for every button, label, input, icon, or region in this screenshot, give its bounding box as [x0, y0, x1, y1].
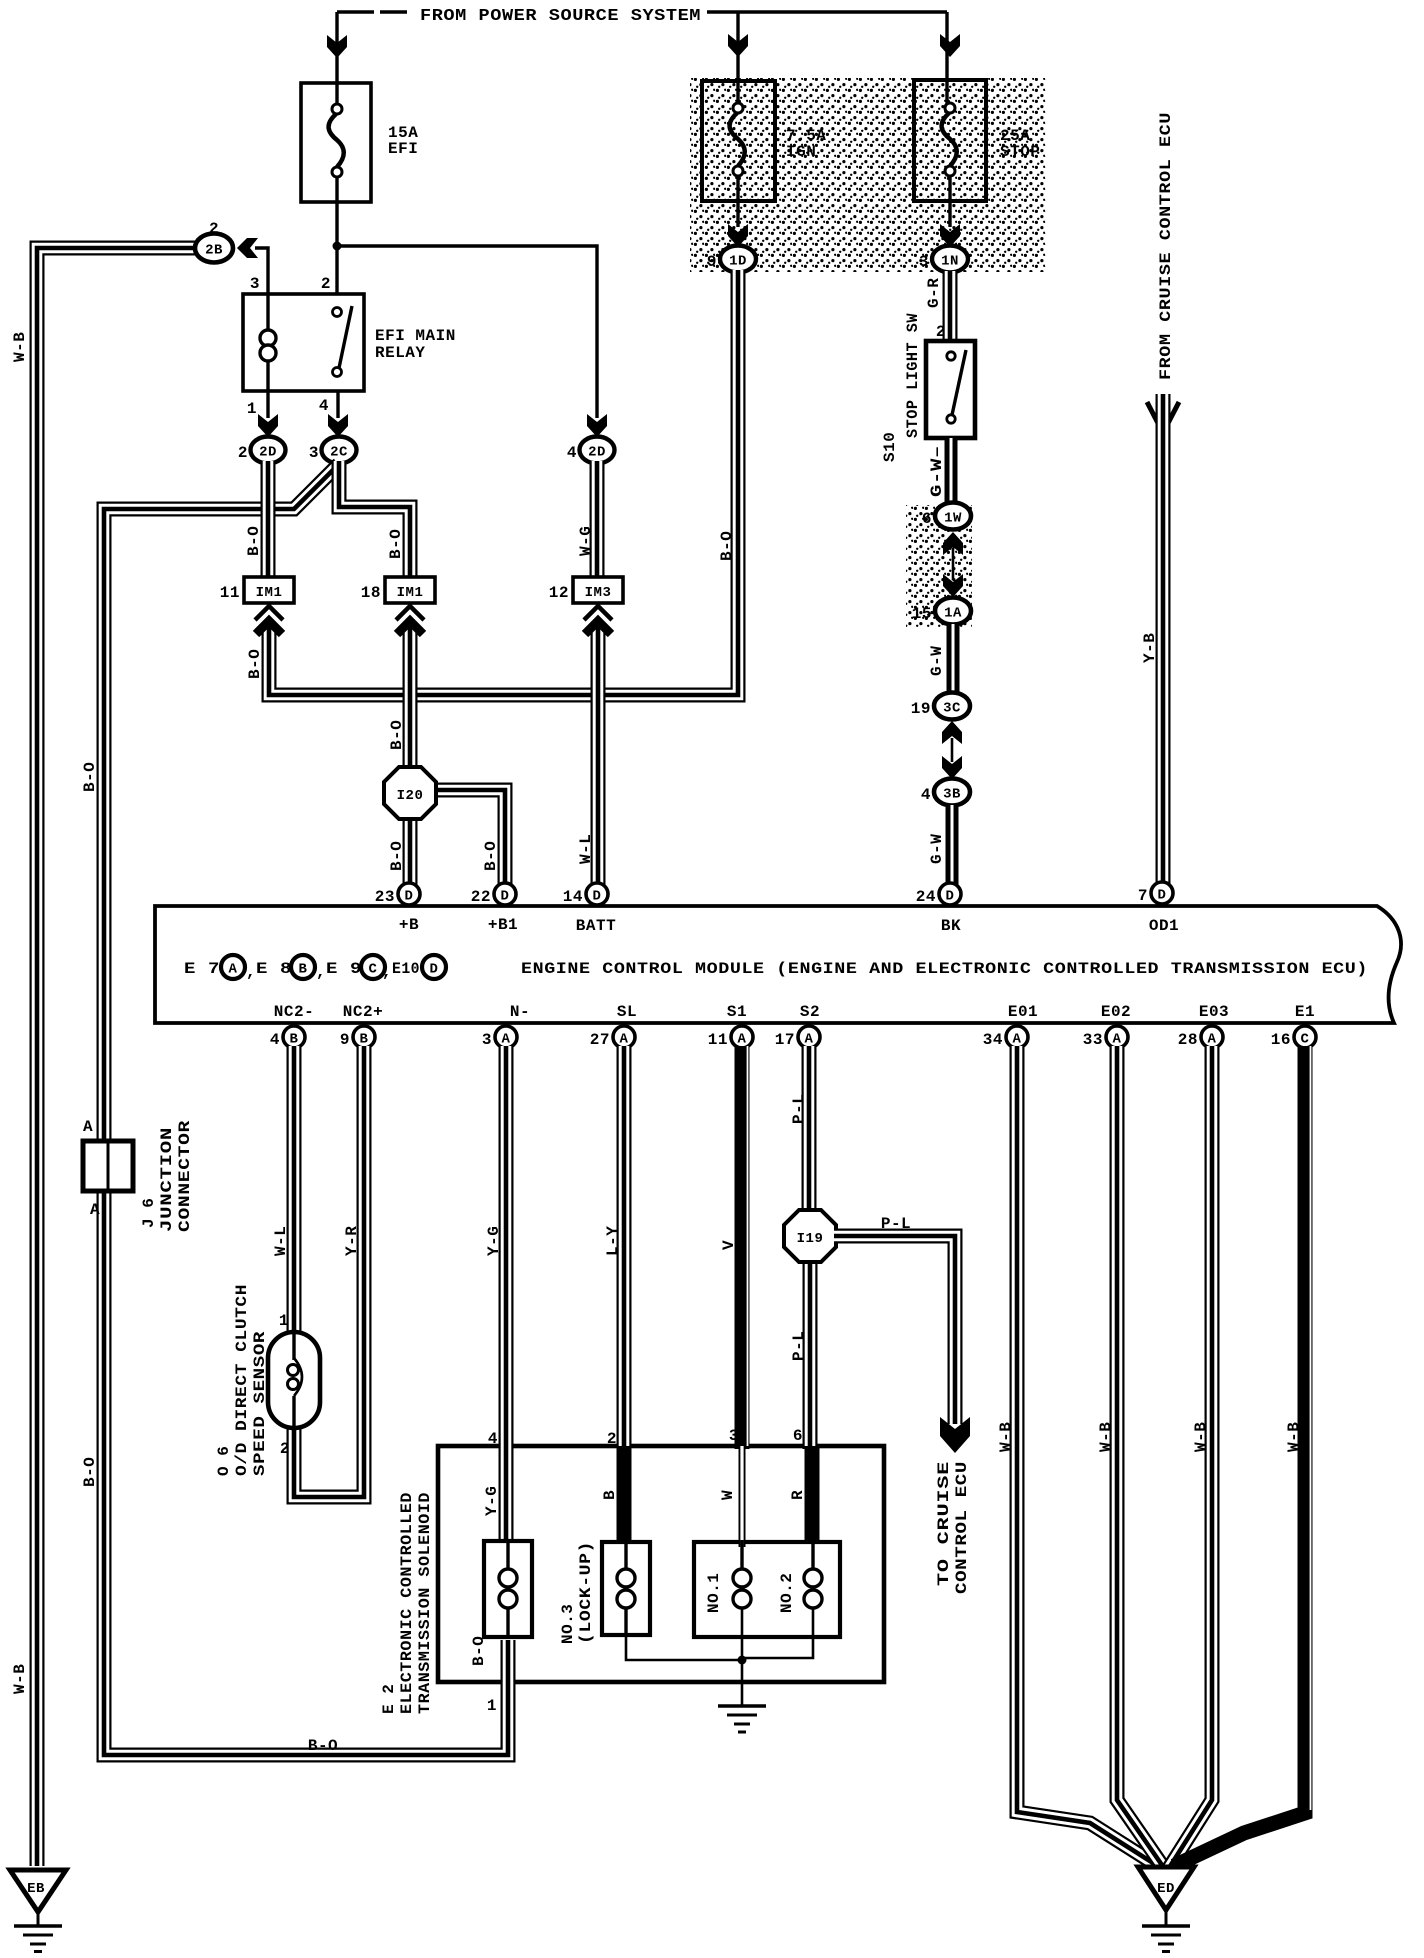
svg-text:SL: SL: [617, 1003, 637, 1021]
wire relay pin 1 to 2(2D): [266, 391, 269, 418]
wire W thin inside E2 to NO.1: [739, 1446, 746, 1547]
connector 11(A): [708, 1026, 753, 1049]
wire V thick 11(A) to E2 pin 3: [742, 1046, 748, 1449]
connector code circle A: [221, 955, 245, 979]
svg-text:B: B: [601, 1490, 619, 1500]
svg-text:2D: 2D: [588, 445, 606, 461]
wire G-W 3B to 24(D): [946, 805, 959, 886]
chevron arrows below IM3 12: [584, 606, 612, 634]
connector 7(D): [1138, 882, 1173, 905]
arrow into 3(2C): [328, 414, 348, 437]
svg-text:ENGINE CONTROL MODULE (ENGINE: ENGINE CONTROL MODULE (ENGINE AND ELECTR…: [521, 960, 1368, 978]
svg-text:B: B: [360, 1032, 369, 1048]
svg-text:D: D: [1158, 888, 1167, 904]
connector 14(D): [563, 883, 608, 906]
wire W-B from 2B to EB ground: [37, 248, 198, 1866]
svg-text:24: 24: [916, 888, 936, 906]
wire thin between 1W and 1A: [952, 548, 955, 580]
svg-text:J 6: J 6: [140, 1198, 158, 1228]
svg-text:2: 2: [238, 444, 248, 462]
svg-text:+B1: +B1: [488, 916, 518, 934]
svg-text:FROM CRUISE CONTROL ECU: FROM CRUISE CONTROL ECU: [1157, 112, 1175, 380]
arrow into 2(2D): [258, 414, 278, 437]
svg-text:TO CRUISE: TO CRUISE: [935, 1461, 953, 1586]
svg-text:B-O: B-O: [308, 1737, 338, 1755]
wire 2D to IM1 11: [261, 461, 276, 580]
svg-text:A: A: [738, 1032, 747, 1048]
svg-text:EFI MAIN: EFI MAIN: [375, 327, 456, 345]
svg-text:3: 3: [919, 253, 929, 271]
svg-text:D: D: [501, 889, 510, 905]
wire G-W 1A to 3C: [947, 624, 960, 694]
svg-text:W-G: W-G: [577, 526, 595, 556]
svg-text:W-B: W-B: [11, 1664, 29, 1694]
wire junction to ground: [741, 1660, 744, 1706]
halftone region around IGN and STOP fuses: [690, 78, 1046, 272]
svg-text:W-B: W-B: [1192, 1422, 1210, 1452]
svg-text:W-L: W-L: [577, 834, 595, 864]
svg-text:B-O: B-O: [81, 1457, 99, 1487]
svg-text:18: 18: [361, 584, 381, 602]
svg-text:G-W–: G-W–: [928, 445, 946, 497]
svg-text:B-O: B-O: [470, 1636, 488, 1666]
svg-text:N-: N-: [510, 1003, 530, 1021]
svg-text:D: D: [405, 889, 414, 905]
svg-text:9: 9: [340, 1031, 350, 1049]
svg-text:IM1: IM1: [397, 585, 424, 601]
svg-text:1: 1: [247, 400, 257, 418]
junction connector I19 octagon: [784, 1210, 836, 1262]
svg-text:ED: ED: [1157, 1881, 1175, 1897]
wire P-L 17(A) to I19: [802, 1046, 817, 1214]
svg-text:Y-R: Y-R: [343, 1226, 361, 1256]
connector 19(3C): [911, 693, 970, 720]
label 15A EFI: [388, 124, 418, 158]
wire EFI fuse to relay pin 2: [335, 177, 338, 296]
svg-text:A: A: [620, 1032, 629, 1048]
wire Y-R sensor pin 2 loop to 9(B): [294, 1046, 364, 1497]
wire NO.3 to ground junction: [626, 1635, 740, 1660]
wire branch to 4(2D): [337, 246, 597, 418]
svg-text:D: D: [593, 889, 602, 905]
svg-text:BATT: BATT: [576, 917, 616, 935]
wire L-Y 27(A) to E2 box: [617, 1046, 632, 1449]
svg-text:O/D DIRECT CLUTCH: O/D DIRECT CLUTCH: [233, 1284, 251, 1476]
relay EFI MAIN RELAY: [243, 294, 364, 391]
arrow barbs from cruise ECU: [1147, 402, 1179, 429]
wire drop to IGN fuse: [736, 12, 739, 104]
fuse 25A STOP: [914, 80, 986, 201]
connector 3(2C): [309, 437, 357, 464]
svg-text:4: 4: [921, 786, 931, 804]
connector 4(3B): [921, 779, 970, 806]
svg-text:W-B: W-B: [1285, 1422, 1303, 1452]
svg-text:EFI: EFI: [388, 140, 418, 158]
wire 4(2D) to IM3 12 W-G: [590, 461, 605, 580]
svg-text:34: 34: [983, 1031, 1003, 1049]
svg-text:OD1: OD1: [1149, 917, 1179, 935]
connector 28(A): [1178, 1026, 1223, 1049]
junction connector IM1 pin 18: [361, 577, 435, 603]
connector code circle B: [291, 955, 315, 979]
arrow into 4(2D): [587, 414, 607, 437]
svg-text:G-R: G-R: [925, 278, 943, 308]
svg-text:IM1: IM1: [256, 585, 283, 601]
svg-text:E02: E02: [1101, 1003, 1131, 1021]
svg-text:A: A: [83, 1118, 93, 1136]
svg-text:IGN: IGN: [786, 143, 816, 161]
svg-text:,: ,: [246, 963, 256, 981]
svg-text:L-Y: L-Y: [604, 1226, 622, 1256]
svg-text:2D: 2D: [259, 445, 277, 461]
wire IM3 12 to 14(D) W-L: [591, 624, 606, 886]
svg-text:9: 9: [707, 253, 717, 271]
svg-text:1: 1: [279, 1312, 289, 1330]
wire Y-G 3(A) to solenoid 1: [499, 1046, 514, 1545]
connector 17(A): [775, 1026, 820, 1049]
svg-text:RELAY: RELAY: [375, 344, 426, 362]
solenoid NO.3 lock-up body: [602, 1540, 650, 1635]
connector 22(D): [471, 883, 516, 906]
svg-text:,: ,: [382, 963, 392, 981]
solenoid box NO.1 NO.2: [694, 1542, 840, 1637]
connector 4(2D): [567, 437, 615, 464]
svg-text:2: 2: [936, 323, 946, 341]
svg-text:33: 33: [1083, 1031, 1103, 1049]
wire drop to EFI fuse: [335, 12, 338, 104]
chevron arrows below IM1 11: [255, 606, 283, 634]
svg-text:11: 11: [220, 584, 240, 602]
svg-text:P-L: P-L: [790, 1331, 808, 1361]
arrow into IGN fuse: [728, 34, 748, 57]
label 7.5A IGN: [786, 127, 826, 161]
svg-text:STOP LIGHT SW: STOP LIGHT SW: [904, 313, 922, 438]
svg-text:4: 4: [488, 1430, 498, 1448]
wire R thick inside E2 to NO.2: [805, 1446, 820, 1544]
svg-text:IM3: IM3: [585, 585, 612, 601]
arrow into 2B: [237, 238, 258, 258]
junction dot below NO.1: [738, 1656, 747, 1665]
wire 2C to IM1 18: [339, 461, 410, 580]
svg-text:28: 28: [1178, 1031, 1198, 1049]
svg-text:D: D: [430, 962, 439, 978]
fuse 15A EFI: [301, 83, 371, 202]
svg-text:P-L: P-L: [790, 1094, 808, 1124]
svg-text:A: A: [90, 1201, 100, 1219]
connector 33(A): [1083, 1026, 1128, 1049]
svg-text:B-O: B-O: [388, 720, 406, 750]
svg-text:,: ,: [316, 963, 326, 981]
wire E02 W-B to ED ground: [1117, 1046, 1164, 1868]
svg-text:FROM POWER SOURCE SYSTEM: FROM POWER SOURCE SYSTEM: [420, 7, 701, 26]
solenoid box E2 electronic controlled transmission solenoid: [438, 1446, 884, 1682]
svg-text:3: 3: [309, 444, 319, 462]
svg-text:16: 16: [1271, 1031, 1291, 1049]
svg-text:1D: 1D: [729, 254, 747, 270]
svg-text:17: 17: [775, 1031, 795, 1049]
svg-text:STOP: STOP: [1000, 143, 1040, 161]
connector 34(A): [983, 1026, 1028, 1049]
wire drop into STOP fuse: [945, 12, 948, 104]
label 25A STOP: [1000, 127, 1040, 161]
connector 16(C): [1271, 1026, 1316, 1049]
svg-text:SPEED SENSOR: SPEED SENSOR: [251, 1331, 269, 1476]
arrow into 9(1D): [728, 224, 748, 247]
sensor O6 O/D direct clutch speed sensor: [268, 1332, 320, 1428]
label EFI MAIN RELAY: [375, 327, 456, 362]
svg-text:JUNCTION: JUNCTION: [158, 1127, 176, 1232]
arrow down into 3B: [942, 756, 962, 779]
svg-text:NC2-: NC2-: [274, 1003, 314, 1021]
node junction below EFI fuse: [333, 242, 342, 251]
connector 15(1A): [912, 598, 971, 625]
svg-text:C: C: [369, 962, 378, 978]
svg-text:W-B: W-B: [997, 1422, 1015, 1452]
arrow into 3(1N): [940, 224, 960, 247]
svg-text:(LOCK-UP): (LOCK-UP): [577, 1541, 595, 1644]
ground ED: [1138, 1867, 1194, 1952]
svg-text:O 6: O 6: [215, 1446, 233, 1476]
svg-text:W-B: W-B: [1097, 1422, 1115, 1452]
svg-text:E 8: E 8: [256, 960, 292, 978]
chevron arrows below IM1 18: [396, 606, 424, 634]
svg-text:3: 3: [729, 1427, 739, 1445]
ECU engine control module box: [155, 906, 1401, 1023]
wire G-W switch to 6(1W): [945, 438, 958, 505]
arrow into STOP fuse: [940, 34, 960, 57]
svg-text:1A: 1A: [944, 606, 962, 622]
svg-text:S10: S10: [881, 432, 899, 462]
svg-text:14: 14: [563, 888, 583, 906]
solenoid NO.1 coil: [733, 1540, 751, 1660]
svg-text:11: 11: [708, 1031, 728, 1049]
wire I20 to 23(D): [403, 816, 418, 886]
svg-text:D: D: [946, 889, 955, 905]
svg-text:S2: S2: [800, 1003, 820, 1021]
svg-text:3C: 3C: [943, 701, 961, 717]
svg-text:E 2: E 2: [380, 1684, 398, 1714]
wire E01 W-B to ED ground: [1017, 1046, 1161, 1868]
svg-text:12: 12: [549, 584, 569, 602]
connector 4(B): [270, 1026, 305, 1049]
wire E1 W-B thick to ED ground: [1174, 1046, 1311, 1866]
wire B-O loop from IM1 11 to 9(1D): [269, 270, 738, 695]
svg-text:G-W: G-W: [928, 834, 946, 864]
wire Y-B to 7(D): [1156, 394, 1171, 886]
ground EB: [10, 1870, 66, 1952]
svg-text:B: B: [299, 962, 308, 978]
wire G-R from 3(1N) to stop light switch: [943, 271, 958, 345]
svg-text:CONNECTOR: CONNECTOR: [176, 1120, 194, 1232]
wire STOP fuse to 3(1N): [948, 176, 951, 227]
svg-text:1: 1: [487, 1697, 497, 1715]
svg-text:P-L: P-L: [881, 1215, 911, 1233]
junction connector J6: [83, 1141, 133, 1191]
svg-text:2C: 2C: [330, 445, 348, 461]
connector 6(1W): [922, 503, 971, 530]
arrow up into 3C: [942, 721, 962, 744]
wire relay pin 4 to 3(2C): [336, 391, 339, 418]
svg-text:Y-G: Y-G: [485, 1226, 503, 1256]
svg-text:NO.3: NO.3: [559, 1604, 577, 1644]
wire W-L 4(B) to speed sensor pin 1: [287, 1046, 302, 1336]
connector 3(A): [482, 1026, 517, 1049]
svg-text:1N: 1N: [941, 254, 959, 270]
svg-text:+B: +B: [399, 916, 419, 934]
svg-text:A: A: [502, 1032, 511, 1048]
svg-text:I19: I19: [797, 1231, 824, 1247]
connector 24(D): [916, 883, 961, 906]
svg-text:27: 27: [590, 1031, 610, 1049]
svg-text:E 9: E 9: [326, 960, 362, 978]
svg-text:W-B: W-B: [11, 332, 29, 362]
svg-text:2: 2: [321, 275, 331, 293]
svg-text:6: 6: [793, 1427, 803, 1445]
svg-text:22: 22: [471, 888, 491, 906]
arrow into EFI fuse: [327, 35, 347, 58]
svg-text:A: A: [1208, 1032, 1217, 1048]
svg-text:NC2+: NC2+: [343, 1003, 383, 1021]
svg-text:23: 23: [375, 888, 395, 906]
wire B-O long loop from 2C to E2 solenoid pin 1: [104, 464, 508, 1755]
connector 2(2B): [195, 220, 233, 263]
svg-text:1W: 1W: [944, 511, 962, 527]
svg-text:6: 6: [922, 510, 932, 528]
svg-text:B-O: B-O: [245, 526, 263, 556]
svg-text:3: 3: [482, 1031, 492, 1049]
wire thin between 3C and 3B: [951, 738, 954, 762]
junction connector IM1 pin 11: [220, 577, 294, 603]
svg-text:4: 4: [319, 397, 329, 415]
svg-text:Y-B: Y-B: [1141, 633, 1159, 663]
svg-text:E01: E01: [1008, 1003, 1038, 1021]
svg-text:A: A: [229, 962, 238, 978]
svg-text:S1: S1: [727, 1003, 747, 1021]
svg-text:CONTROL ECU: CONTROL ECU: [953, 1461, 971, 1594]
svg-text:Y-G: Y-G: [483, 1486, 501, 1516]
connector 27(A): [590, 1026, 635, 1049]
svg-text:A: A: [1113, 1032, 1122, 1048]
fuse 7.5A IGN: [702, 81, 775, 201]
svg-text:W-L: W-L: [272, 1226, 290, 1256]
svg-text:B-O: B-O: [718, 531, 736, 561]
svg-text:19: 19: [911, 700, 931, 718]
halftone region around connectors 1W and 1A: [906, 505, 972, 627]
arrow up into 1W: [943, 532, 963, 555]
svg-text:B-O: B-O: [81, 762, 99, 792]
arrow to cruise control ECU: [940, 1417, 970, 1453]
wire IM1 18 to I20: [403, 624, 418, 770]
svg-text:E10: E10: [392, 960, 420, 978]
junction connector I20 octagon: [384, 767, 436, 819]
connector code circle C: [361, 955, 385, 979]
svg-text:A: A: [805, 1032, 814, 1048]
svg-text:B-O: B-O: [482, 841, 500, 871]
svg-text:BK: BK: [941, 917, 961, 935]
svg-text:B-O: B-O: [246, 649, 264, 679]
arrow down into 1A: [943, 574, 963, 597]
svg-text:A: A: [1013, 1032, 1022, 1048]
connector 3(1N): [919, 246, 968, 273]
solenoid 1 body: [484, 1541, 532, 1637]
svg-text:7: 7: [1138, 887, 1148, 905]
svg-text:3B: 3B: [943, 787, 961, 803]
solenoid NO.2 coil: [742, 1540, 822, 1658]
svg-text:3: 3: [250, 275, 260, 293]
svg-text:4: 4: [567, 444, 577, 462]
svg-text:2: 2: [280, 1440, 290, 1458]
svg-text:TRANSMISSION SOLENOID: TRANSMISSION SOLENOID: [416, 1492, 434, 1714]
svg-text:E 7: E 7: [184, 960, 220, 978]
svg-text:G-W: G-W: [928, 646, 946, 676]
svg-text:NO.2: NO.2: [778, 1573, 796, 1613]
svg-text:2: 2: [607, 1430, 617, 1448]
connector 9(1D): [707, 246, 756, 273]
svg-text:B-O: B-O: [388, 841, 406, 871]
svg-text:4: 4: [270, 1031, 280, 1049]
svg-text:E1: E1: [1295, 1003, 1315, 1021]
ground below solenoids: [718, 1706, 766, 1732]
wire P-L I19 to cruise control ECU: [834, 1236, 955, 1424]
svg-text:R: R: [789, 1490, 807, 1500]
wire power source left lead: [337, 10, 407, 13]
svg-text:I20: I20: [397, 788, 424, 804]
svg-text:V: V: [720, 1240, 738, 1250]
svg-text:15: 15: [912, 605, 932, 623]
connector 23(D): [375, 883, 420, 906]
svg-text:W: W: [719, 1490, 737, 1500]
svg-text:2: 2: [209, 220, 219, 238]
svg-text:2B: 2B: [205, 243, 223, 259]
svg-text:E03: E03: [1199, 1003, 1229, 1021]
svg-text:B-O: B-O: [387, 529, 405, 559]
wire IGN fuse to 9(1D): [736, 176, 739, 227]
svg-text:C: C: [1301, 1032, 1310, 1048]
wire I20 to 22(D): [432, 790, 505, 886]
switch S10 STOP LIGHT SW: [926, 341, 975, 438]
wire power source right lead to STOP fuse drop: [707, 10, 947, 13]
svg-text:ELECTRONIC CONTROLLED: ELECTRONIC CONTROLLED: [398, 1492, 416, 1714]
svg-text:B: B: [290, 1032, 299, 1048]
junction connector IM3 pin 12: [549, 577, 623, 603]
wire B thick inside E2 to NO.3: [617, 1446, 632, 1544]
connector 2(2D): [238, 437, 286, 464]
svg-text:NO.1: NO.1: [705, 1573, 723, 1613]
connector code circle D: [422, 955, 446, 979]
wire E03 W-B to ED ground: [1169, 1046, 1212, 1868]
connector 9(B): [340, 1026, 375, 1049]
svg-text:EB: EB: [27, 1881, 45, 1897]
wire 2B to relay pin 3: [255, 248, 268, 296]
wire P-L I19 to E2 pin 6: [803, 1258, 818, 1449]
